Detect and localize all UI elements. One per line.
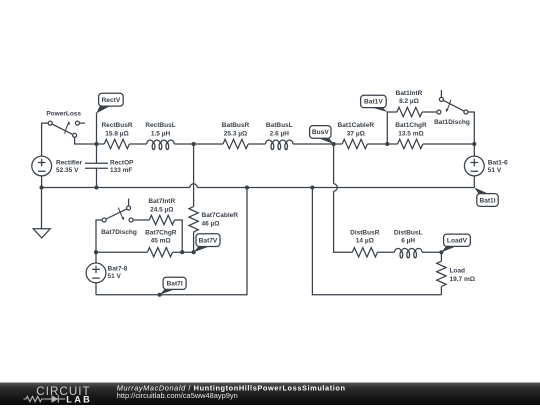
svg-text:133 mF: 133 mF	[110, 167, 132, 174]
flag LoadV	[444, 234, 471, 246]
resistor Bat7CableR 46 uΩ (vertical)	[189, 207, 238, 232]
wire	[378, 251, 395, 253]
wire Bat7 switch feed	[96, 220, 102, 252]
switch Bat1Dischg (open, SW2)	[434, 90, 470, 126]
svg-text:Bat1V: Bat1V	[364, 99, 383, 106]
wire Load return loop	[312, 188, 441, 295]
resistor Bat1IntR 8.2 uΩ	[396, 90, 423, 117]
node Bat7I anchor	[158, 293, 162, 297]
flag BusV	[310, 126, 331, 139]
wire Bat7 return loop	[96, 188, 247, 295]
flag Bat7I	[163, 277, 186, 289]
resistor Bat1ChgR 13.5 mΩ	[395, 122, 427, 149]
svg-text:1.5 µH: 1.5 µH	[151, 130, 171, 137]
wire	[133, 219, 149, 221]
wire BusV riser (hops over ground bus)	[333, 144, 335, 184]
svg-text:37 µΩ: 37 µΩ	[347, 130, 365, 137]
flag Bat1V	[361, 95, 387, 107]
wire	[248, 143, 265, 145]
node Bat7 return	[245, 185, 249, 189]
node Bat1-6 top	[472, 142, 476, 146]
svg-text:Bat1ChgR: Bat1ChgR	[395, 122, 427, 129]
node Dist return	[310, 185, 314, 189]
svg-text:Bat1Dischg: Bat1Dischg	[434, 119, 470, 126]
svg-text:Bat7IntR: Bat7IntR	[148, 198, 175, 205]
wire Bat7IntR drop	[175, 220, 183, 252]
svg-text:Bat7-8: Bat7-8	[108, 266, 128, 273]
svg-text:Bat7I: Bat7I	[167, 281, 183, 288]
wire	[193, 232, 195, 252]
resistor Bat7ChgR 45 mΩ	[145, 229, 177, 257]
svg-text:52.35 V: 52.35 V	[56, 167, 79, 174]
wire Bat7ChgR row	[96, 251, 147, 253]
svg-text:Bat7ChgR: Bat7ChgR	[145, 229, 177, 236]
inductor DistBusL 6 uH	[394, 230, 423, 258]
svg-text:15.8 µΩ: 15.8 µΩ	[105, 130, 128, 137]
svg-text:25.3 µΩ: 25.3 µΩ	[224, 130, 247, 137]
voltage source Rectifier	[32, 156, 83, 176]
svg-text:http://circuitlab.com/ca5ww48a: http://circuitlab.com/ca5ww48ayp9yn	[117, 391, 238, 400]
wire rectifier top to switch	[42, 123, 49, 156]
wire Bat1 upper branch riser	[387, 112, 397, 144]
wire	[129, 143, 146, 145]
node ground	[39, 185, 43, 189]
flag Bat1I	[477, 194, 498, 207]
svg-text:Bat1CableR: Bat1CableR	[338, 122, 375, 129]
svg-text:Bat1I: Bat1I	[479, 197, 495, 204]
svg-text:45 mΩ: 45 mΩ	[151, 238, 171, 245]
svg-text:Load: Load	[450, 268, 466, 275]
node cap bottom	[94, 185, 98, 189]
svg-text:LAB: LAB	[66, 394, 92, 404]
inductor BatBusL 2.6 uH	[266, 122, 294, 150]
wire rectifier bottom	[41, 176, 43, 188]
wire	[423, 143, 475, 145]
svg-text:24.5 µΩ: 24.5 µΩ	[150, 206, 173, 213]
svg-text:DistBusR: DistBusR	[350, 230, 380, 237]
svg-text:Bat7Dischg: Bat7Dischg	[101, 229, 137, 236]
svg-text:BatBusL: BatBusL	[266, 122, 293, 129]
wire	[422, 111, 437, 113]
node BusV anchor	[332, 142, 336, 146]
wire	[293, 143, 342, 145]
svg-text:BusV: BusV	[312, 129, 329, 136]
resistor Bat1CableR 37 uΩ	[338, 122, 375, 149]
svg-text:14 µΩ: 14 µΩ	[356, 238, 374, 245]
inductor RectBusL 1.5 uH	[145, 122, 175, 150]
node Bat7V anchor	[192, 250, 196, 254]
svg-text:BatBusR: BatBusR	[222, 122, 250, 129]
svg-text:Bat7CableR: Bat7CableR	[202, 212, 239, 219]
flag RectV with pole	[96, 93, 123, 144]
svg-text:6 µH: 6 µH	[401, 238, 415, 245]
wire	[422, 251, 441, 253]
resistor Load 19.7 mΩ (vertical)	[437, 252, 475, 294]
svg-text:51 V: 51 V	[108, 273, 122, 280]
node RectV anchor	[94, 142, 98, 146]
voltage source Bat7-8 51 V	[86, 252, 128, 295]
ground	[33, 188, 50, 238]
wire	[173, 251, 194, 253]
capacitor RectOP 133 mF	[85, 144, 134, 188]
svg-text:LoadV: LoadV	[447, 238, 468, 245]
svg-text:2.6 µH: 2.6 µH	[270, 130, 290, 137]
wire switch to bus	[468, 112, 474, 144]
svg-text:13.5 mΩ: 13.5 mΩ	[398, 130, 423, 137]
node LoadV anchor	[439, 250, 443, 254]
wire riser from top bus	[193, 144, 195, 207]
svg-text:RectV: RectV	[102, 97, 121, 104]
switch PowerLoss (closed, SW1)	[46, 111, 85, 138]
node Bat7 chg junction	[180, 250, 184, 254]
switch Bat7Dischg (open, SW3)	[101, 199, 137, 237]
svg-text:Bat7V: Bat7V	[199, 237, 218, 244]
resistor DistBusR 14 uΩ	[350, 230, 380, 257]
resistor Bat7IntR 24.5 uΩ	[148, 198, 175, 225]
resistor RectBusR 15.8 uΩ	[101, 122, 132, 149]
node Bat1 branch	[385, 142, 389, 146]
wire switch to top bus	[75, 137, 105, 144]
svg-text:RectBusL: RectBusL	[145, 122, 175, 129]
svg-text:PowerLoss: PowerLoss	[46, 111, 81, 118]
svg-text:19.7 mΩ: 19.7 mΩ	[450, 276, 475, 283]
CircuitLab logo	[24, 385, 93, 404]
flag Bat7V	[196, 234, 220, 247]
wire	[174, 143, 223, 145]
svg-text:Rectifier: Rectifier	[56, 160, 82, 167]
svg-text:46 µΩ: 46 µΩ	[202, 221, 220, 228]
svg-text:Bat1-6: Bat1-6	[488, 160, 508, 167]
resistor BatBusR 25.3 uΩ	[222, 122, 250, 149]
svg-text:8.2 µΩ: 8.2 µΩ	[399, 98, 419, 105]
svg-text:RectBusR: RectBusR	[101, 122, 132, 129]
voltage source Bat1-6 51 V	[464, 144, 508, 188]
svg-text:Bat1IntR: Bat1IntR	[396, 90, 423, 97]
ground bus wire (hops over Bat7CableR riser)	[42, 187, 190, 189]
svg-text:51 V: 51 V	[488, 167, 502, 174]
node Bat7 source top	[94, 250, 98, 254]
wire	[367, 143, 397, 145]
node top bus / Bat7CableR	[192, 142, 196, 146]
svg-text:DistBusL: DistBusL	[394, 230, 423, 237]
svg-text:RectOP: RectOP	[110, 160, 134, 167]
